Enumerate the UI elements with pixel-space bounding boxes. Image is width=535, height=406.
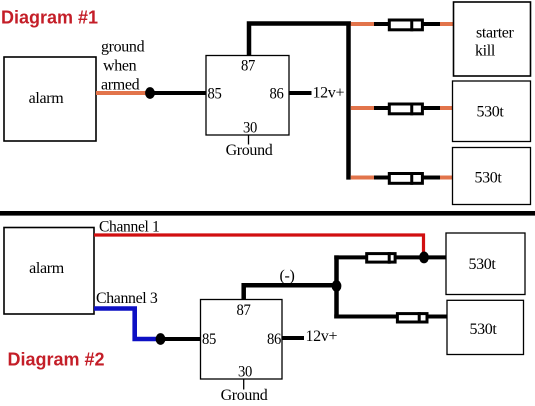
svg-text:12v+: 12v+: [313, 85, 345, 102]
svg-text:armed: armed: [101, 77, 140, 94]
svg-text:Diagram #1: Diagram #1: [1, 8, 98, 28]
svg-text:85: 85: [202, 331, 216, 348]
svg-text:ground: ground: [101, 39, 145, 56]
svg-text:(-): (-): [280, 268, 295, 285]
svg-text:530t: 530t: [474, 170, 502, 187]
svg-text:85: 85: [208, 86, 222, 103]
svg-text:Ground: Ground: [221, 387, 268, 404]
svg-text:kill: kill: [475, 43, 496, 60]
svg-text:alarm: alarm: [29, 90, 65, 107]
svg-text:87: 87: [241, 58, 255, 75]
svg-text:when: when: [103, 58, 137, 75]
svg-text:Channel 3: Channel 3: [96, 290, 158, 307]
svg-text:Diagram #2: Diagram #2: [8, 350, 105, 370]
svg-text:530t: 530t: [469, 321, 497, 338]
svg-text:30: 30: [243, 120, 257, 137]
svg-text:starter: starter: [476, 25, 515, 42]
svg-text:87: 87: [237, 302, 251, 319]
svg-text:12v+: 12v+: [306, 328, 338, 345]
svg-text:86: 86: [267, 331, 281, 348]
svg-text:30: 30: [238, 364, 252, 381]
svg-text:530t: 530t: [468, 256, 496, 273]
svg-text:Ground: Ground: [226, 142, 273, 159]
svg-text:Channel 1: Channel 1: [99, 219, 160, 236]
svg-text:530t: 530t: [476, 104, 504, 121]
svg-text:alarm: alarm: [29, 260, 65, 277]
svg-text:86: 86: [270, 86, 284, 103]
